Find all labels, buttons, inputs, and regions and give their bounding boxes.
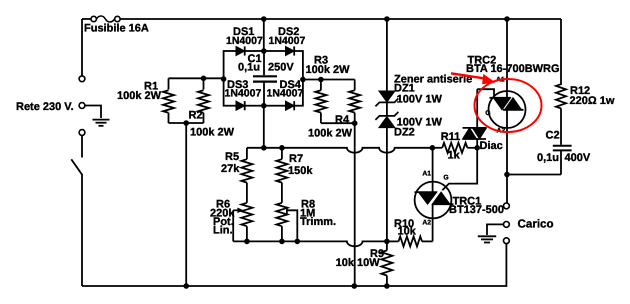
resistor R10 — [387, 236, 433, 246]
label R1 — [144, 80, 158, 92]
diode DS2 — [286, 46, 295, 55]
label DS3 — [227, 79, 248, 91]
wire load earth stub — [487, 224, 503, 235]
label C2 — [546, 130, 560, 142]
junction low-R9 top — [384, 239, 390, 245]
junction bridge top center — [261, 48, 267, 54]
wire R3R4 bottom — [321, 122, 355, 124]
label Carico — [518, 218, 554, 231]
label C1 value — [238, 62, 260, 74]
junction bridge bottom center — [261, 103, 267, 109]
wire R10 to TRC1 A2 — [432, 219, 434, 242]
svg-text:10k 10W: 10k 10W — [336, 257, 381, 269]
triac TRC2 symbol — [490, 91, 524, 128]
terminal load bottom — [504, 238, 510, 244]
label C1 — [248, 53, 262, 65]
svg-text:Diac: Diac — [480, 140, 503, 152]
wire diac to TRC2 gate — [476, 89, 478, 128]
svg-text:100k 2W: 100k 2W — [117, 90, 162, 102]
red arrow annotation — [451, 73, 496, 84]
junction top-bridge — [261, 16, 267, 22]
triac TRC2 circle — [489, 91, 526, 128]
junction bridge left — [221, 76, 227, 82]
label R9 — [370, 248, 384, 260]
svg-text:1N4007: 1N4007 — [267, 87, 304, 99]
pin label A2 TRC1 — [422, 220, 431, 227]
label R8 — [301, 199, 315, 211]
svg-text:R11: R11 — [441, 131, 461, 143]
switch SW1 blade — [71, 159, 82, 175]
svg-text:Rete 230 V.: Rete 230 V. — [16, 101, 74, 113]
label R10 value — [398, 226, 417, 238]
label TRC2 — [468, 55, 497, 67]
bridge frame — [224, 51, 303, 106]
wire R4 column lower — [354, 148, 356, 242]
svg-text:DZ1: DZ1 — [394, 82, 415, 94]
wire earth stub — [85, 106, 101, 119]
wire TRC2 A1 — [506, 19, 508, 91]
terminal lower (switch) — [79, 130, 85, 136]
svg-text:DZ2: DZ2 — [394, 127, 415, 139]
svg-text:R4: R4 — [335, 114, 350, 126]
wire C2 to A2 node — [507, 174, 561, 176]
svg-text:150k: 150k — [288, 165, 313, 177]
trimmer R8 wiper — [287, 207, 297, 242]
label DS1 value — [226, 35, 263, 47]
capacitor C2 — [553, 146, 572, 175]
svg-text:100k 2W: 100k 2W — [306, 64, 351, 76]
svg-text:250V: 250V — [268, 62, 294, 74]
wire diac bottom stub — [476, 139, 478, 148]
label DZ1 value — [397, 94, 443, 106]
label C1 voltage — [268, 62, 294, 74]
svg-text:27k: 27k — [221, 163, 240, 175]
label DS2 — [278, 26, 299, 38]
wire bottom rail — [82, 244, 506, 286]
wire bridge to R3R4 — [303, 79, 355, 81]
label Diac — [480, 140, 503, 152]
svg-text:Fusibile 16A: Fusibile 16A — [84, 23, 149, 35]
zener DZ1 — [375, 91, 398, 116]
label R4 value — [308, 128, 353, 140]
label Rete 230 V. — [16, 101, 74, 113]
wire zener column lower — [386, 148, 388, 242]
svg-text:0,1u: 0,1u — [238, 62, 260, 74]
fuse F1 Fusibile 16A — [91, 16, 120, 22]
wire TRC1 gate — [442, 148, 477, 191]
resistor R11 — [432, 143, 477, 153]
svg-text:A2: A2 — [422, 220, 431, 227]
wire R1R2 tap down — [185, 123, 187, 286]
svg-text:Trimm.: Trimm. — [300, 216, 336, 228]
svg-text:1N4007: 1N4007 — [269, 35, 306, 47]
wire R1R2 bottom — [169, 122, 204, 124]
pin label A1 TRC2 — [496, 77, 505, 84]
label R12 value — [570, 95, 615, 107]
svg-text:100k 2W: 100k 2W — [308, 128, 353, 140]
label R7 value — [288, 165, 313, 177]
svg-text:C2: C2 — [546, 130, 560, 142]
wire low node with hop — [233, 241, 387, 246]
label R1 value — [117, 90, 162, 102]
svg-text:A1: A1 — [422, 170, 431, 177]
label TRC1 — [453, 196, 482, 208]
svg-text:0,1u: 0,1u — [537, 152, 559, 164]
junction R3 top — [318, 77, 324, 83]
resistor R2 — [198, 78, 209, 123]
label C2 value — [537, 152, 559, 164]
wire R4 column upper — [354, 123, 356, 148]
resistor R3 — [315, 80, 326, 124]
junction R1R2 tap — [183, 120, 189, 126]
wire mid node (bridge- to gate network) with hops — [247, 148, 433, 153]
wire R4 column bottom — [354, 241, 356, 286]
wire left rail lower — [81, 175, 83, 287]
zener DZ2 — [375, 112, 398, 148]
svg-text:100k 2W: 100k 2W — [190, 127, 235, 139]
label DZ2 value — [397, 117, 443, 129]
label R5 value — [221, 163, 240, 175]
junction C2 node — [504, 172, 510, 178]
ground (mains earth) — [93, 120, 110, 126]
label R2 value — [190, 127, 235, 139]
wire to switch — [81, 136, 83, 158]
red highlight ellipse on TRC2 — [475, 79, 542, 132]
label DS1 — [233, 26, 254, 38]
junction bottom-R4col — [352, 283, 358, 289]
terminal load earth — [504, 222, 510, 228]
junction top-zener — [384, 16, 390, 22]
junction low-R8 wiper — [295, 239, 301, 245]
pin label G TRC2 — [485, 110, 490, 117]
wire R7-R8 — [281, 183, 283, 203]
wire TRC2 gate — [477, 89, 494, 96]
wire TRC2 A2 down — [506, 128, 508, 203]
diode DS4 — [286, 101, 295, 110]
label TRC1 part — [449, 204, 504, 216]
label DS2 value — [269, 35, 306, 47]
resistor R5 — [241, 148, 252, 183]
svg-text:400V: 400V — [565, 152, 591, 164]
junction R11 right — [474, 145, 480, 151]
diac D1 — [463, 128, 487, 139]
label R3 — [314, 55, 328, 67]
triac TRC1 circle — [415, 182, 452, 219]
ground (load earth) — [478, 236, 496, 242]
label Zener antiserie — [394, 73, 472, 85]
label R5 — [225, 151, 239, 163]
svg-text:R2: R2 — [189, 109, 203, 121]
diode DS1 — [236, 46, 245, 55]
svg-text:10k: 10k — [398, 226, 417, 238]
junction R2 top — [201, 76, 207, 82]
resistor R12 — [556, 84, 566, 145]
junction low-R6 — [244, 239, 250, 245]
diode DS3 — [236, 101, 245, 110]
label Fusibile 16A — [84, 23, 149, 35]
label R11 — [441, 131, 461, 143]
svg-text:G: G — [443, 175, 448, 182]
label R10 — [394, 218, 414, 230]
label R7 — [289, 153, 303, 165]
pin label G TRC1 — [443, 175, 448, 182]
wire R1R2 top — [169, 77, 224, 79]
label R6 Lin. — [213, 224, 233, 236]
svg-text:Lin.: Lin. — [213, 224, 233, 236]
label DZ2 — [394, 127, 415, 139]
resistor R7 — [276, 148, 287, 183]
pin label A2 TRC2 — [497, 127, 506, 134]
svg-text:1N4007: 1N4007 — [226, 35, 263, 47]
pot R6 wiper arrow — [233, 208, 243, 214]
label R8 Trimm. — [300, 216, 336, 228]
svg-text:G: G — [485, 110, 490, 117]
resistor R1 — [163, 78, 174, 123]
junction low-R8 — [279, 239, 285, 245]
junction bottom-R2tap — [183, 283, 189, 289]
label DZ1 — [394, 82, 415, 94]
label R11 value — [448, 150, 461, 162]
wire left rail upper — [81, 19, 83, 76]
junction R4 bottom — [352, 120, 358, 126]
svg-text:Carico: Carico — [518, 218, 554, 231]
label R9 value — [336, 257, 381, 269]
potentiometer R6 — [241, 203, 252, 242]
wire zener column top — [386, 19, 388, 91]
resistor R9 — [381, 241, 392, 286]
label R6 value — [210, 207, 235, 219]
label R6 — [216, 199, 230, 211]
svg-text:1k: 1k — [448, 150, 461, 162]
label DS4 — [280, 79, 302, 91]
wire right rail top — [560, 19, 562, 85]
svg-text:R7: R7 — [289, 153, 303, 165]
terminal mid (earth) — [79, 103, 85, 109]
wire bridge top stub — [263, 19, 265, 51]
svg-text:BT137-500: BT137-500 — [449, 204, 504, 216]
resistor R4 — [349, 80, 360, 124]
terminal load top — [504, 203, 510, 209]
terminal upper — [79, 76, 85, 82]
svg-text:R5: R5 — [225, 151, 239, 163]
label C2 voltage — [565, 152, 591, 164]
label R2 — [189, 109, 203, 121]
junction bottom-R9 — [384, 283, 390, 289]
svg-text:100V 1W: 100V 1W — [397, 94, 443, 106]
junction mid-bridge bottom — [261, 145, 267, 151]
wire R5-R6 — [246, 183, 248, 203]
svg-text:220Ω 1w: 220Ω 1w — [570, 95, 615, 107]
triac TRC1 symbol — [415, 182, 454, 219]
trimmer R8 — [276, 203, 287, 242]
junction mid-R11 left — [430, 145, 436, 151]
capacitor C1 — [253, 51, 277, 106]
svg-text:BTA 16-700BWRG: BTA 16-700BWRG — [466, 63, 560, 75]
wire TRC1 A1 — [432, 148, 434, 182]
junction top-TRC2 — [504, 16, 510, 22]
svg-text:1N4007: 1N4007 — [225, 87, 262, 99]
junction bridge right — [300, 77, 306, 83]
label R4 — [335, 114, 350, 126]
label R8 value — [300, 207, 315, 219]
label TRC2 part — [466, 63, 560, 75]
wire top rail — [120, 18, 561, 20]
label DS3 value — [225, 87, 262, 99]
pin label A1 TRC1 — [422, 170, 431, 177]
label DS4 value — [267, 87, 304, 99]
pot R6 wiper wire — [232, 210, 234, 241]
wire bridge bottom down — [263, 106, 265, 148]
label R12 — [570, 85, 590, 97]
wire top rail left segment — [82, 18, 91, 20]
label R3 value — [306, 64, 351, 76]
junction mid-R7 top — [279, 145, 285, 151]
label R6 Pot. — [213, 216, 234, 228]
